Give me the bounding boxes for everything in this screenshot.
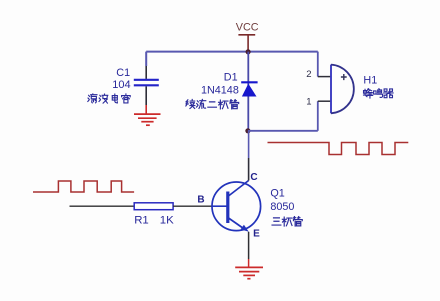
svg-text:1N4148: 1N4148 xyxy=(201,85,239,97)
pin lead: emitter vertical xyxy=(248,232,250,259)
wire: base lead left of R1 xyxy=(70,205,135,207)
wire: bottom rail to buzzer column xyxy=(248,130,318,132)
transistor Q1 circle xyxy=(212,182,261,231)
svg-text:R1: R1 xyxy=(134,215,149,227)
junction dot at bottom node xyxy=(245,128,250,133)
svg-text:104: 104 xyxy=(112,79,130,91)
ground symbol under C1 xyxy=(134,114,161,125)
svg-text:1: 1 xyxy=(306,96,311,107)
ground stub (red) xyxy=(145,105,147,114)
label 滤波电容 xyxy=(88,94,130,103)
wire: base lead right of R1 xyxy=(173,205,212,207)
annotation: left square wave xyxy=(33,181,134,192)
label 续流二极管 xyxy=(186,99,239,108)
junction dot at VCC node xyxy=(246,49,251,54)
svg-text:2: 2 xyxy=(306,69,311,80)
power port VCC: bar xyxy=(238,34,255,36)
buzzer H1 body: flat edge xyxy=(330,65,332,114)
svg-text:B: B xyxy=(197,195,204,206)
capacitor C1 plates xyxy=(134,79,159,81)
svg-text:D1: D1 xyxy=(224,72,238,84)
svg-text:E: E xyxy=(253,228,260,239)
svg-text:H1: H1 xyxy=(363,75,377,87)
annotation: right square wave xyxy=(268,143,409,155)
transistor collector diagonal xyxy=(228,181,249,197)
transistor base line inside circle xyxy=(212,205,228,207)
transistor emitter arrowhead xyxy=(241,225,249,232)
svg-text:C: C xyxy=(250,172,257,183)
pin 1 stub xyxy=(318,100,331,102)
svg-text:VCC: VCC xyxy=(236,22,259,34)
wire: collector vertical (upper part) xyxy=(248,131,250,158)
wire: right column lower (from buzzer pin 1) xyxy=(317,101,319,131)
transistor emitter diagonal xyxy=(228,218,245,230)
label 蜂鸣器 xyxy=(364,89,394,98)
wire: left branch down to C1 xyxy=(145,52,147,66)
pin lead: C1 top pin xyxy=(145,66,147,79)
wire: right column upper (to buzzer pin 2) xyxy=(317,52,319,77)
diode D1 triangle xyxy=(242,84,257,97)
svg-text:C1: C1 xyxy=(116,67,130,79)
svg-text:Q1: Q1 xyxy=(270,187,284,199)
buzzer H1 body: arc xyxy=(331,65,354,114)
pin 2 stub xyxy=(318,76,331,78)
svg-text:1K: 1K xyxy=(160,215,174,227)
ground symbol under emitter xyxy=(235,267,263,278)
pin lead: collector xyxy=(248,158,250,181)
ground stub (red) at emitter xyxy=(248,259,250,267)
wire: top rail xyxy=(146,51,318,53)
power port VCC: stub xyxy=(247,35,249,52)
resistor R1 body xyxy=(134,203,173,210)
label 三极管 xyxy=(272,217,302,226)
wire: center column (diode branch) xyxy=(247,52,249,131)
transistor base bar xyxy=(226,192,229,224)
buzzer plus sign xyxy=(341,74,347,80)
pin lead: C1 bottom pin xyxy=(145,86,147,105)
svg-text:8050: 8050 xyxy=(270,201,294,213)
diode D1 cathode bar xyxy=(241,81,257,83)
